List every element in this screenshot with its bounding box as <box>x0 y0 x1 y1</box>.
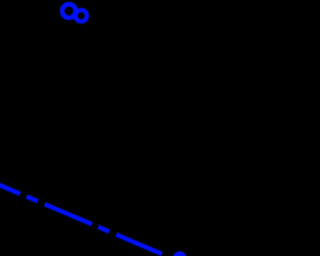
dashed line glow <box>0 174 162 254</box>
endpoint dot <box>174 252 186 256</box>
endpoint dot glow mid <box>173 251 187 256</box>
endpoint dot glow <box>172 251 187 256</box>
dashed line glow mid <box>0 174 162 254</box>
marker circle right <box>76 10 87 21</box>
core layer <box>0 4 186 256</box>
marker circle right glow mid <box>76 10 87 21</box>
marker circle left <box>62 4 75 17</box>
marker circle left glow mid <box>62 4 75 17</box>
dashed line <box>0 174 162 254</box>
marker circle left glow <box>62 4 75 17</box>
glow layer outer <box>0 4 187 256</box>
glow layer mid <box>0 4 187 256</box>
marker circle right glow <box>76 10 87 21</box>
